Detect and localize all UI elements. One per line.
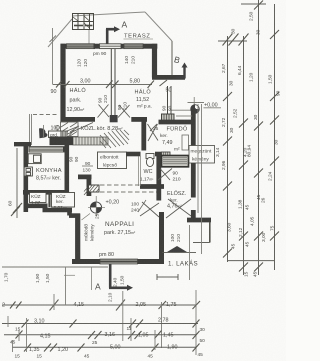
top connector — [241, 3, 266, 5]
elbontott lepcso box — [98, 152, 127, 169]
east wall below entrance door — [191, 210, 196, 220]
wall KOZL north right part — [131, 117, 147, 122]
diagonal closet door — [67, 130, 74, 138]
under-stair wall block — [50, 137, 74, 146]
wall pillar L near kemeny — [78, 175, 92, 197]
hatch at wall base — [84, 188, 89, 196]
nappali south wall pier left — [72, 259, 100, 264]
witness thin left of stair — [43, 125, 45, 138]
tick — [56, 81, 62, 88]
ground line left of nappali — [2, 266, 108, 268]
wall WC/FURDO mid — [155, 152, 161, 157]
dark B glyph marker — [39, 128, 47, 138]
ticks right column top — [223, 34, 249, 46]
wall WC south — [140, 184, 164, 189]
door post — [110, 115, 118, 122]
entrance steps triangle — [167, 246, 187, 252]
wc fixture — [146, 154, 154, 167]
stair lower hatch diagonals — [100, 130, 129, 148]
terrace east edge — [171, 41, 173, 76]
FURDO door diagonals — [148, 124, 159, 141]
wall WC north left — [126, 152, 141, 157]
wc west thin wall — [139, 156, 141, 186]
small circles glyphs — [56, 126, 60, 130]
chimney block — [162, 114, 175, 121]
kitchen west wall — [23, 144, 28, 212]
connector bottom — [228, 260, 276, 262]
bathtub — [162, 156, 189, 167]
small dim 90 at lakas — [157, 274, 178, 280]
north wall pier 3 — [121, 44, 125, 49]
scan texture — [0, 0, 1, 1]
tick — [64, 81, 70, 88]
witness at 1 lakas — [189, 225, 191, 280]
wall between KIZ — [48, 193, 50, 207]
line1 tick right1 — [159, 301, 167, 309]
shower rect in FURDO — [182, 135, 189, 150]
line1 tick A — [116, 300, 125, 311]
east wall of HALO1 — [152, 44, 157, 78]
gardrob west thin line — [30, 114, 32, 145]
nappali south window — [100, 259, 138, 264]
stair flight diagonals — [61, 123, 93, 138]
left vertical dim line — [16, 148, 18, 218]
door swing nappali-elosz — [140, 202, 159, 217]
window W2 (terrace door) — [100, 44, 122, 49]
tie line top right — [218, 40, 247, 42]
south-west stepped wall — [28, 204, 48, 209]
window W3 — [124, 44, 143, 49]
level mark +0,00 — [191, 105, 200, 114]
door diagonals HALO2 — [118, 105, 130, 118]
wc door swing — [158, 169, 172, 181]
bottom dim line 1 — [2, 304, 197, 306]
right witness verticals — [198, 104, 202, 254]
roof outline diagonal left — [48, 19, 72, 47]
leader to chimney text — [82, 214, 91, 221]
wall KOZL/FURDO vertical — [141, 119, 146, 150]
terasz underline — [124, 38, 154, 40]
witness verticals bottom left — [8, 316, 155, 352]
porch bottom line — [193, 242, 210, 244]
tick — [106, 81, 113, 89]
entrance door swing — [166, 199, 191, 218]
gardrob box — [49, 131, 62, 138]
interior dim line in rooms — [53, 84, 153, 86]
ticks R1 — [223, 92, 232, 258]
striped block next to grd — [61, 131, 67, 138]
kitchen NE wall corner — [63, 147, 69, 152]
line1 small ticks left — [10, 302, 22, 309]
interior wall HALO1/HALO2 — [111, 49, 115, 116]
kitchen cupboard — [24, 167, 32, 176]
wall nappali/elosz vertical — [156, 154, 161, 201]
north wall pier 4 — [143, 44, 157, 49]
kitchen counter — [28, 154, 41, 164]
flue drop line — [88, 30, 90, 44]
gardrob niche dashed top — [33, 114, 58, 116]
line2 ticks — [22, 320, 200, 328]
chimney detail box — [73, 14, 94, 30]
leader +0,00 upper — [188, 102, 205, 104]
north wall of HALO2 — [152, 75, 185, 80]
hatched pillar — [89, 185, 100, 192]
label 25 tick — [150, 124, 157, 131]
kitchen south wall — [23, 190, 69, 195]
nappali south wall pier right — [138, 259, 165, 264]
north wall pier 2 — [94, 44, 101, 49]
nappali west wall — [75, 214, 80, 265]
roof outline top — [72, 12, 145, 16]
ticks R2 — [239, 119, 248, 272]
bottom dim line 2 — [2, 323, 198, 325]
KIZ box 2 — [52, 193, 75, 208]
right dim line R1 — [227, 36, 229, 262]
ticks R4 — [270, 30, 279, 241]
section arrow A bottom — [109, 264, 127, 288]
dashed beam lines — [100, 184, 158, 186]
left dim ticks lower — [11, 203, 22, 216]
north wall pier 1 — [61, 44, 68, 49]
ground stub near wall — [64, 274, 75, 276]
bottom dim line 3 — [4, 334, 197, 336]
megszunt kemeny box — [189, 146, 215, 164]
level mark +0,20 chimney — [90, 202, 101, 213]
leader +0,00 lower — [172, 109, 191, 111]
witness line above left — [52, 28, 54, 84]
wall KOZL north left — [61, 117, 96, 122]
stair steps band — [73, 137, 108, 145]
tick on witness — [50, 36, 57, 43]
ticks R3 — [254, 1, 263, 272]
thin line above furdo wall — [176, 115, 192, 117]
thin corner lines above east wall — [193, 97, 195, 109]
porch east edge — [209, 222, 211, 243]
line4 ticks — [24, 344, 200, 352]
entrance south wall — [187, 218, 211, 223]
bottom dim line 4 — [12, 346, 197, 348]
stair upper outline — [61, 122, 79, 137]
small striped block — [162, 152, 171, 157]
kitchen north window band — [29, 147, 65, 152]
right dim line R4 — [274, 4, 276, 270]
wall FURDO north — [159, 120, 196, 125]
line1 tick right2 — [193, 301, 201, 309]
roof outline chamfer right — [145, 12, 172, 41]
line3 ticks — [16, 331, 200, 340]
witness near window corner — [91, 267, 93, 290]
door diagonals HALO1 — [98, 105, 110, 118]
east exterior wall — [191, 108, 196, 198]
right dim line R3 — [258, 0, 260, 275]
tick — [112, 81, 119, 89]
section arrow A top — [106, 29, 115, 49]
witness verticals group 1 — [54, 290, 196, 355]
wall kitchen/hall vertical — [65, 143, 70, 193]
line1 tick mid — [50, 300, 59, 311]
KIZ box 1 — [30, 193, 47, 203]
tick at 50 — [160, 80, 168, 86]
bump wall left — [14, 142, 31, 146]
west wall upper — [60, 44, 65, 122]
closet wall in HALO2 east — [168, 86, 172, 116]
window W1 in north wall — [67, 44, 95, 49]
witness at nappali corner — [65, 267, 67, 305]
right dim line R2 — [243, 36, 245, 275]
tick — [148, 81, 155, 89]
